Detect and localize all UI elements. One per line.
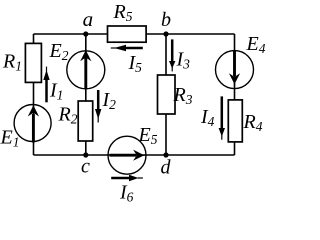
current arrow I3 [169, 39, 175, 71]
source E4 arrow [229, 51, 240, 86]
source E2 circle [67, 51, 105, 89]
node d [163, 152, 168, 157]
source E5 circle [108, 136, 146, 174]
current arrow I4 [219, 96, 225, 139]
svg-text:d: d [161, 157, 172, 179]
source E2 arrow [80, 50, 91, 90]
wire top a-b rail [34, 33, 235, 35]
current arrow I1 [43, 67, 49, 103]
resistor R1 [25, 43, 41, 82]
resistor R2 [78, 101, 93, 141]
wire bottom c-d rail [34, 154, 235, 156]
current arrow I6 [111, 175, 143, 181]
current arrow I5 [111, 45, 143, 51]
current arrow I2 [95, 90, 101, 123]
wire right branch [234, 34, 236, 155]
node c [83, 152, 88, 157]
node b [163, 31, 168, 36]
resistor R5 [108, 26, 147, 42]
source E5 arrow [110, 150, 145, 161]
wire branch a-c [85, 34, 87, 155]
svg-text:a: a [83, 7, 94, 31]
source E1 circle [14, 105, 51, 142]
resistor R4 [228, 100, 242, 142]
source E4 circle [216, 51, 254, 89]
source E1 arrow [28, 105, 39, 143]
svg-text:c: c [81, 156, 90, 178]
wire branch b-d [165, 34, 167, 155]
svg-text:b: b [161, 9, 171, 31]
resistor R3 [158, 75, 176, 114]
node a [83, 31, 88, 36]
wire left branch [33, 34, 35, 155]
